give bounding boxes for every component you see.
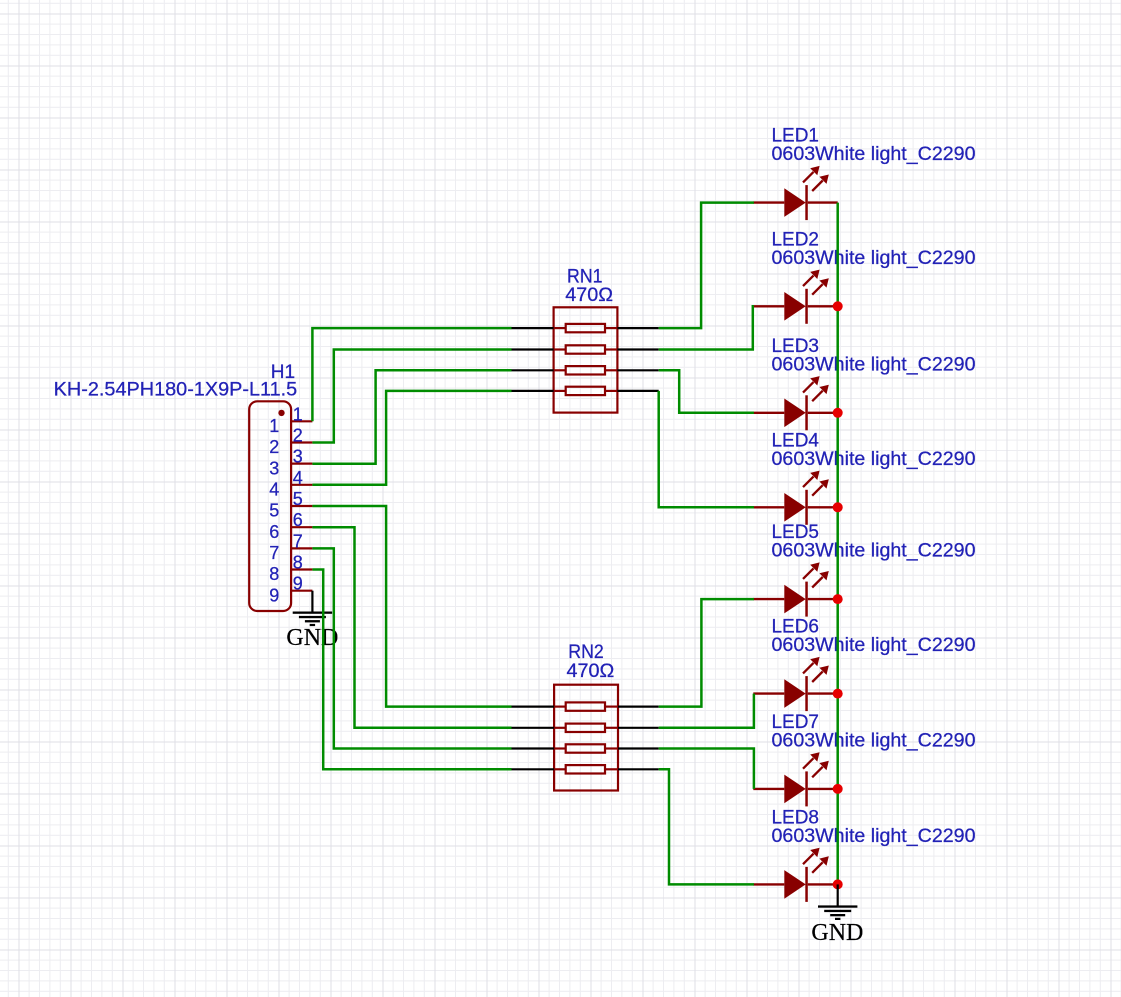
- RN2 pin 4 (left): [512, 768, 555, 770]
- svg-text:0603White light_C2290: 0603White light_C2290: [772, 826, 976, 847]
- connector H1 body: [249, 401, 291, 611]
- wire H1 pin7 to RN2 pin3: [312, 548, 511, 748]
- resistor network RN1 body: [554, 307, 618, 412]
- wire RN2 pin6 to LED7 anode: [659, 749, 754, 789]
- wire H1 pin5 to RN2 pin1: [312, 506, 511, 707]
- wire H1 pin8 to RN2 pin4: [312, 570, 511, 770]
- RN2 pin 8 (right): [618, 705, 659, 707]
- junction at LED8 cathode: [833, 879, 843, 889]
- LED2 symbol: [753, 270, 837, 324]
- wire H1 pin3 to RN1 pin3: [312, 370, 511, 463]
- svg-text:3: 3: [269, 458, 279, 478]
- LED1 symbol: [753, 166, 837, 220]
- svg-text:1: 1: [293, 404, 303, 424]
- svg-text:470Ω: 470Ω: [567, 661, 615, 682]
- svg-text:470Ω: 470Ω: [565, 285, 613, 306]
- svg-text:5: 5: [293, 489, 303, 509]
- svg-text:KH-2.54PH180-1X9P-L11.5: KH-2.54PH180-1X9P-L11.5: [54, 379, 298, 400]
- junction at LED6 cathode: [833, 689, 843, 699]
- H1 pin 1 stub: [291, 420, 312, 422]
- svg-text:6: 6: [269, 522, 279, 542]
- svg-text:9: 9: [269, 585, 279, 605]
- wire RN2 pin5 to LED8 anode: [659, 769, 754, 884]
- connector H1 pin-1 marker dot: [278, 410, 284, 416]
- wire H1 pin1 to RN1 pin1: [312, 328, 511, 421]
- LED6 symbol: [753, 657, 837, 711]
- RN1 pin 7 (right): [617, 348, 658, 350]
- RN2 pin 6 (right): [618, 747, 659, 749]
- wire RN1 pin8 to LED1 anode: [659, 203, 754, 329]
- H1 pin 6 stub: [291, 526, 312, 528]
- LED3 symbol: [753, 376, 837, 430]
- RN2 pin 2 (left): [512, 727, 555, 729]
- RN2 pin 3 (left): [512, 747, 555, 749]
- wire RN1 pin6 to LED3 anode: [659, 370, 754, 413]
- svg-text:0603White light_C2290: 0603White light_C2290: [772, 449, 976, 470]
- junction at LED2 cathode: [833, 301, 843, 311]
- RN2 resistor element 3: [566, 744, 605, 752]
- RN2 resistor element 2: [566, 724, 605, 732]
- svg-text:0603White light_C2290: 0603White light_C2290: [772, 354, 976, 375]
- RN2 resistor element 4: [566, 765, 605, 773]
- wire LED8 cathode to ground: [837, 884, 839, 906]
- svg-text:2: 2: [293, 425, 303, 445]
- LED4 symbol: [753, 471, 837, 525]
- RN2 pin 5 (right): [618, 768, 659, 770]
- RN1 pin 2 (left): [512, 348, 554, 350]
- svg-text:1: 1: [269, 416, 279, 436]
- svg-text:7: 7: [293, 531, 303, 551]
- LED5 symbol: [753, 562, 837, 616]
- RN1 resistor element 4: [566, 387, 605, 395]
- ground symbol (right, LED cathode bus): [818, 905, 857, 920]
- RN1 pin 4 (left): [512, 390, 554, 392]
- RN2 pin 7 (right): [618, 727, 659, 729]
- ground symbol (left, at H1 pin 9): [293, 612, 332, 627]
- wire pin9 to ground: [311, 591, 313, 613]
- RN1 pin 6 (right): [617, 369, 658, 371]
- svg-text:4: 4: [293, 468, 303, 488]
- svg-text:7: 7: [269, 543, 279, 563]
- wire RN2 pin7 to LED6 anode: [659, 694, 754, 728]
- H1 pin 2 stub: [291, 441, 312, 443]
- wire RN2 pin8 to LED5 anode: [659, 599, 754, 707]
- LED7 symbol: [753, 752, 837, 806]
- svg-text:4: 4: [269, 480, 279, 500]
- RN1 resistor element 1: [566, 324, 605, 332]
- H1 pin 3 stub: [291, 463, 312, 465]
- RN2 pin 1 (left): [512, 705, 555, 707]
- wire H1 pin6 to RN2 pin2: [312, 527, 511, 728]
- svg-text:8: 8: [269, 564, 279, 584]
- svg-text:0603White light_C2290: 0603White light_C2290: [772, 731, 976, 752]
- RN1 pin 5 (right): [617, 390, 658, 392]
- resistor network RN2 body: [554, 685, 618, 791]
- svg-text:2: 2: [269, 437, 279, 457]
- H1 pin 8 stub: [291, 568, 312, 570]
- wire H1 pin2 to RN1 pin2: [312, 350, 511, 443]
- svg-text:5: 5: [269, 501, 279, 521]
- H1 pin 5 stub: [291, 505, 312, 507]
- junction at LED3 cathode: [833, 408, 843, 418]
- svg-text:3: 3: [293, 447, 303, 467]
- junction at LED7 cathode: [833, 784, 843, 794]
- svg-text:RN2: RN2: [568, 642, 604, 663]
- svg-text:8: 8: [293, 553, 303, 573]
- wire GND bus (LED cathodes): [836, 203, 839, 885]
- svg-text:0603White light_C2290: 0603White light_C2290: [772, 248, 976, 269]
- RN1 resistor element 3: [566, 366, 605, 374]
- H1 pin 4 stub: [291, 484, 312, 486]
- RN2 resistor element 1: [566, 702, 605, 710]
- RN1 pin 3 (left): [512, 369, 554, 371]
- junction at LED5 cathode: [833, 594, 843, 604]
- svg-text:GND: GND: [286, 625, 338, 651]
- H1 pin 9 stub: [291, 590, 312, 592]
- LED8 symbol: [753, 848, 837, 902]
- svg-text:0603White light_C2290: 0603White light_C2290: [772, 635, 976, 656]
- H1 pin 7 stub: [291, 547, 312, 549]
- svg-text:0603White light_C2290: 0603White light_C2290: [772, 541, 976, 562]
- svg-text:9: 9: [293, 574, 303, 594]
- svg-text:GND: GND: [811, 920, 863, 946]
- RN1 resistor element 2: [566, 345, 605, 353]
- wire RN1 pin5 to LED4 anode: [659, 391, 754, 507]
- RN1 pin 1 (left): [512, 327, 554, 329]
- wire RN1 pin7 to LED2 anode: [659, 306, 754, 349]
- RN1 pin 8 (right): [617, 327, 658, 329]
- svg-text:6: 6: [293, 510, 303, 530]
- wire H1 pin4 to RN1 pin4: [312, 391, 511, 485]
- svg-text:0603White light_C2290: 0603White light_C2290: [772, 144, 976, 165]
- junction at LED4 cathode: [833, 502, 843, 512]
